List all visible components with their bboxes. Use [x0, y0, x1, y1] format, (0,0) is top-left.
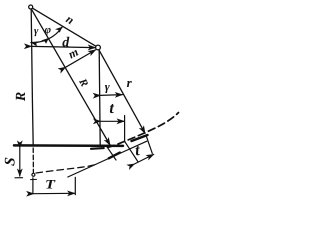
T right tick [74, 177, 76, 194]
long thin line L [68, 141, 147, 177]
steep extension C below P2 [146, 136, 152, 154]
radius line r from O2 to contact point P2 with arrowhead [99, 50, 145, 133]
svg-text:φ: φ [45, 24, 52, 36]
dimension arrow T [34, 192, 75, 194]
svg-text:R: R [14, 92, 29, 102]
vertical line from O1 [31, 9, 33, 146]
arc arrowhead at n end [55, 27, 62, 33]
line n from O1 to O2 [33, 8, 96, 46]
angle arc gamma-phi around O1 [31, 27, 62, 43]
pivot circle O1 [29, 5, 33, 9]
svg-text:R: R [76, 76, 91, 89]
svg-text:γ: γ [34, 26, 39, 37]
vertical line below O2 [99, 50, 100, 145]
dimension arrow d [31, 46, 95, 47]
svg-text:γ: γ [105, 80, 110, 94]
bold bar 1 [109, 153, 120, 159]
svg-text:T: T [45, 176, 56, 191]
baseline (machined surface) [14, 144, 123, 147]
extension tick for t [124, 116, 126, 142]
dimension arrow gamma2 (between V2 and r line) [100, 94, 122, 97]
arc arrowhead at vertical end [31, 41, 39, 46]
slanted dimension arrow t2 [134, 154, 153, 164]
S bottom tick [15, 177, 23, 179]
pivot circle O2 [96, 45, 101, 50]
svg-text:t: t [109, 100, 114, 117]
svg-text:r: r [127, 75, 133, 90]
steep extension B from curve [125, 141, 138, 161]
bold bar 2 [132, 135, 148, 141]
svg-text:S: S [2, 157, 19, 167]
dimension arrow S [19, 148, 21, 176]
svg-text:n: n [64, 12, 77, 28]
upper dashed trajectory curve [91, 147, 104, 150]
curl at bottom of vertical [32, 173, 35, 176]
dimension arrow m [66, 50, 96, 67]
arc arrowheads at R-line crossing [41, 38, 49, 44]
dimension arrow t horizontal [100, 120, 124, 122]
small cross tick below curl [31, 178, 37, 180]
steep extension A below P1 [108, 148, 116, 160]
radius line R from O1 to contact point P1 with arrowhead [32, 9, 110, 145]
lower dashed line [36, 164, 97, 173]
T left tick [32, 178, 34, 194]
